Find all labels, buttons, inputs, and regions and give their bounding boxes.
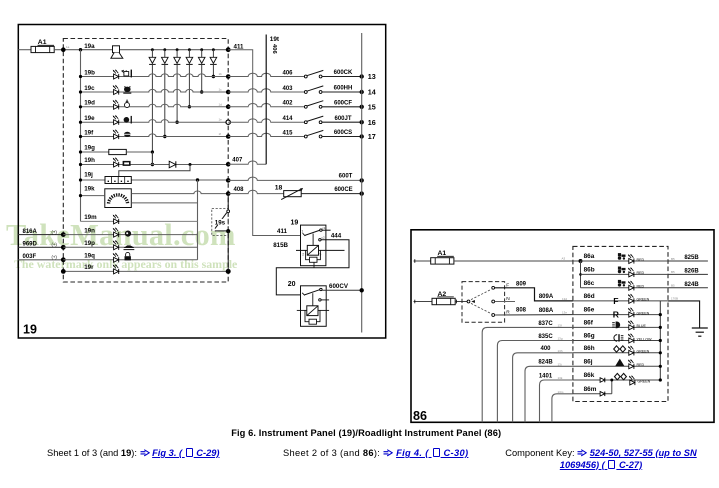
svg-text:808: 808 — [516, 308, 527, 314]
switch contact for 406 — [304, 75, 307, 78]
svg-text:19q: 19q — [84, 253, 95, 260]
svg-text:600JT: 600JT — [334, 116, 351, 122]
external wire 003F — [18, 259, 63, 261]
svg-text:RED: RED — [637, 258, 645, 262]
node 19c exits dashed box — [226, 90, 231, 95]
fan wire 835C — [497, 341, 573, 423]
selector contact N — [492, 300, 495, 303]
junction D4 to row — [188, 105, 191, 108]
watermark — [6, 218, 236, 253]
node 19n on dashed edge — [61, 232, 66, 237]
selector contact R — [492, 314, 495, 317]
node 19q on dashed edge — [61, 257, 66, 262]
svg-text:RED: RED — [637, 285, 645, 289]
wire 406 to switch — [228, 73, 305, 76]
svg-text:1b: 1b — [219, 72, 223, 76]
diode on 19h — [169, 161, 175, 167]
wire 815B stub to relay 19 coil — [296, 249, 307, 251]
svg-text:407: 407 — [232, 158, 243, 164]
indicator LED 19f — [113, 129, 119, 139]
fan wire 824B — [525, 366, 573, 422]
row wire 19m — [81, 220, 198, 222]
svg-text:400: 400 — [540, 346, 551, 352]
svg-text:19t: 19t — [270, 36, 280, 43]
relay 19 contact 2 — [319, 239, 321, 241]
svg-text:GREEN: GREEN — [637, 350, 650, 354]
node 19d exits dashed box — [226, 105, 231, 110]
svg-text:13d: 13d — [562, 297, 567, 301]
svg-text:1401: 1401 — [539, 373, 553, 379]
svg-text:(+): (+) — [52, 255, 58, 260]
relay 20 pin 1 / blade — [302, 293, 305, 296]
instrument panel dashed enclosure 19 — [63, 39, 228, 283]
row wire 19b — [81, 74, 229, 77]
terminal 17 — [360, 134, 364, 138]
junction 19a / left bus — [79, 48, 82, 51]
svg-text:444: 444 — [331, 233, 342, 240]
svg-text:16: 16 — [368, 118, 376, 127]
wire 407 — [228, 161, 266, 164]
row wire 19h — [81, 164, 229, 166]
svg-text:19f: 19f — [84, 129, 94, 136]
wire 403 to switch — [228, 89, 305, 92]
indicator LED 19n — [113, 227, 119, 237]
junction 19j / bus B — [196, 178, 199, 181]
gang unit 19j — [105, 177, 131, 184]
svg-text:86a: 86a — [584, 253, 595, 260]
switch contact for 403 — [304, 91, 307, 94]
node 407 exits dashed box — [226, 162, 231, 167]
svg-text:86f: 86f — [584, 319, 594, 326]
svg-text:815B: 815B — [273, 242, 288, 249]
svg-text:600CE: 600CE — [334, 187, 352, 193]
diode on 86m — [600, 392, 605, 397]
wire 408 — [228, 190, 284, 193]
fan wire 86m — [552, 394, 573, 423]
node: 19a enters dashed box — [61, 47, 66, 52]
wire 600T — [228, 177, 362, 180]
wire 402 to switch — [228, 103, 305, 106]
svg-text:86b: 86b — [584, 266, 595, 273]
svg-text:411: 411 — [277, 228, 288, 235]
indicator LED 19b — [113, 69, 119, 79]
bus B vertical — [197, 180, 199, 260]
gauge upper wire 408 — [131, 191, 228, 194]
wire 826B — [668, 273, 708, 275]
node 19f exits dashed box — [226, 134, 231, 139]
fan wire 837C — [482, 327, 573, 422]
gauge lower wire to bus B — [131, 202, 197, 204]
indicator LED 19c — [113, 85, 119, 95]
svg-text:86e: 86e — [584, 307, 595, 314]
svg-text:R: R — [613, 310, 620, 320]
icon tractor 86b — [618, 267, 626, 274]
svg-text:816A: 816A — [23, 229, 38, 235]
svg-text:86: 86 — [413, 409, 427, 423]
svg-text:YELLOW: YELLOW — [637, 337, 653, 341]
svg-text:170B: 170B — [671, 296, 678, 300]
svg-text:1a: 1a — [66, 45, 70, 49]
svg-text:808A: 808A — [539, 308, 554, 314]
svg-text:86g: 86g — [584, 333, 595, 340]
svg-text:2: 2 — [302, 252, 304, 256]
icon diamonds 86h — [614, 346, 626, 352]
svg-text:86m: 86m — [584, 386, 597, 393]
wire 600CK — [322, 76, 362, 78]
terminal 13 — [360, 74, 364, 78]
wire to ground — [668, 301, 700, 328]
alarm buzzer on 19a — [113, 46, 120, 53]
svg-text:600CK: 600CK — [334, 70, 353, 76]
wire A2 to selector — [455, 301, 467, 303]
svg-text:1: 1 — [302, 230, 304, 234]
svg-text:F: F — [613, 296, 618, 306]
panel 86 outer border — [411, 230, 714, 422]
wire 444 — [276, 240, 349, 295]
svg-text:826B: 826B — [684, 269, 699, 275]
switch contact for 415 — [304, 135, 307, 138]
svg-text:GREEN: GREEN — [638, 379, 651, 383]
svg-text:969D: 969D — [23, 242, 38, 248]
link sheet2 — [283, 448, 468, 458]
relay 20 coil left stub — [297, 309, 307, 311]
terminal 16 — [360, 120, 364, 124]
row wire 86c — [581, 287, 669, 289]
svg-text:17: 17 — [368, 132, 376, 141]
svg-text:414: 414 — [282, 116, 293, 122]
node 19r right on dashed edge — [226, 269, 231, 274]
svg-text:86k: 86k — [584, 372, 595, 379]
fan wire 1401 — [540, 380, 573, 422]
row wire 19f — [81, 134, 229, 137]
row wire 19r — [63, 270, 228, 272]
svg-text:19n: 19n — [84, 227, 95, 234]
wire 411 vertical — [228, 50, 300, 236]
svg-text:600HH: 600HH — [334, 86, 353, 92]
svg-text:13f: 13f — [558, 323, 562, 327]
svg-text:19g: 19g — [84, 145, 95, 152]
icon brake 19e — [124, 116, 132, 124]
svg-text:B5: B5 — [671, 284, 675, 288]
svg-text:825B: 825B — [684, 255, 699, 261]
fuse A2 — [432, 298, 455, 304]
gauge left pin wire — [81, 195, 105, 197]
roadlight dashed enclosure 86 — [573, 246, 668, 401]
icon tractor 86a — [618, 253, 626, 260]
diode D4 drop line — [188, 48, 191, 51]
edge bus 408 to 19s — [227, 194, 229, 210]
diode D3 drop line — [176, 48, 179, 51]
svg-text:406: 406 — [282, 70, 293, 76]
row wire 86k — [573, 379, 660, 381]
svg-text:13j: 13j — [558, 362, 562, 366]
node 600CV on bus — [360, 288, 364, 292]
row wire 86h — [573, 352, 660, 354]
icon coolant 19d — [125, 100, 130, 108]
row wire 86b — [581, 273, 669, 275]
svg-text:GREEN: GREEN — [637, 311, 650, 315]
svg-text:1e: 1e — [219, 118, 223, 122]
resistor 19g — [109, 149, 127, 154]
svg-text:20: 20 — [288, 281, 296, 288]
row wire 19g — [81, 151, 109, 153]
link sheet1 — [47, 448, 220, 458]
svg-text:402: 402 — [282, 101, 293, 107]
node 408 exits dashed box — [226, 191, 231, 196]
edge bus 19s to 19r — [227, 231, 229, 271]
relay 20 parallel resistor — [305, 310, 320, 321]
svg-text:RED: RED — [637, 363, 645, 367]
wire 600CE — [301, 193, 362, 195]
relay 19 coil right stub — [319, 249, 345, 251]
svg-text:19b: 19b — [84, 69, 95, 76]
row wire 86m — [573, 393, 612, 395]
wire 414 to switch — [228, 119, 305, 122]
svg-text:19d: 19d — [84, 100, 95, 107]
row wire 86f — [573, 326, 660, 328]
figure caption — [7, 428, 719, 438]
indicator LED 86b — [628, 267, 634, 277]
wire 600CF — [322, 106, 362, 108]
switch 19s — [227, 210, 230, 213]
node 19r left — [61, 269, 66, 274]
svg-text:(+): (+) — [52, 229, 58, 234]
indicator LED 19q — [113, 252, 119, 262]
svg-text:824B: 824B — [538, 360, 553, 366]
svg-text:1d: 1d — [219, 102, 223, 106]
link component key — [505, 448, 697, 471]
panel light switch 19s dashed boxlet — [212, 208, 228, 235]
icon warning triangle 86j — [615, 359, 624, 367]
row wire 19c — [81, 89, 229, 92]
svg-text:19s: 19s — [215, 219, 226, 226]
wire 808 — [495, 314, 573, 316]
svg-text:19p: 19p — [84, 240, 95, 247]
icon horn 19n — [125, 231, 131, 237]
svg-text:406: 406 — [271, 44, 277, 54]
svg-text:19j: 19j — [84, 171, 93, 178]
svg-text:B5: B5 — [671, 257, 675, 261]
selector common contact — [467, 300, 470, 303]
svg-text:RED: RED — [637, 271, 645, 275]
node 19p on dashed edge — [61, 245, 66, 250]
svg-text:86c: 86c — [584, 280, 595, 287]
wire 86a feed — [454, 260, 581, 262]
svg-text:19a: 19a — [84, 43, 95, 50]
junction D2 to row — [163, 135, 166, 138]
wire 19a from border to fuse A1 — [18, 49, 31, 51]
node 600T exits dashed box — [226, 178, 231, 183]
svg-text:A3: A3 — [562, 257, 566, 261]
selector switch dashed box — [462, 282, 505, 323]
wire 600CS — [322, 136, 362, 138]
wire 824B — [668, 287, 708, 289]
icon oil 19b — [122, 70, 132, 78]
svg-text:19k: 19k — [84, 186, 95, 193]
wire 600JT — [322, 121, 362, 123]
relay 20 contact 2 stub — [319, 299, 321, 301]
row wire 86g — [573, 340, 660, 342]
svg-text:809: 809 — [516, 282, 527, 288]
branch 19h to 19j box — [189, 163, 192, 166]
icon worklight 86g — [614, 334, 624, 341]
row wire 19j — [81, 179, 229, 181]
terminal 15 — [360, 105, 364, 109]
connector line 19t (wire 406) — [265, 35, 267, 165]
node below 19s — [226, 229, 230, 233]
row wire 86d — [573, 300, 668, 302]
svg-text:13: 13 — [368, 72, 376, 81]
diode on 86k — [600, 378, 605, 383]
junction 86a/b/c — [579, 259, 583, 263]
svg-text:B5: B5 — [671, 270, 675, 274]
relay 19 bottom stub — [313, 262, 315, 268]
terminal 14 — [360, 90, 364, 94]
relay 19 coil — [307, 245, 318, 255]
indicator LED 86d — [628, 294, 634, 304]
indicator LED 19m — [113, 214, 119, 224]
indicator LED 19e — [113, 115, 119, 125]
svg-text:824B: 824B — [684, 282, 699, 288]
svg-text:86j: 86j — [584, 358, 593, 365]
svg-text:18: 18 — [275, 184, 283, 191]
svg-text:13e: 13e — [562, 311, 567, 315]
wire 600CV — [322, 289, 362, 291]
bus 86a to 86c — [580, 261, 582, 288]
row wire 19d — [81, 104, 229, 107]
diode D1 drop line — [151, 48, 154, 51]
svg-text:13g: 13g — [558, 337, 563, 341]
relay 19 contact 1 stub — [322, 229, 330, 231]
svg-text:408: 408 — [233, 187, 244, 193]
terminal bus — [361, 33, 363, 333]
row wire 19e — [81, 120, 229, 123]
icon battery 19h — [123, 161, 131, 166]
svg-text:835C: 835C — [538, 334, 553, 340]
junction D5 to row — [200, 90, 203, 93]
svg-text:600CF: 600CF — [334, 100, 352, 106]
row wire 86a — [581, 260, 669, 262]
node 411 on dashed edge — [226, 47, 231, 52]
icon lowbeam 86f — [612, 322, 620, 329]
indicator LED 19r — [113, 264, 119, 274]
wire 809 — [495, 288, 573, 301]
svg-text:600CS: 600CS — [334, 130, 352, 136]
relay 19 pin 1 / blade — [303, 233, 306, 236]
indicator LED 86c — [628, 281, 634, 291]
svg-text:19e: 19e — [84, 115, 95, 122]
icon lock 19q — [125, 252, 131, 260]
relay 19 parallel resistor — [306, 250, 321, 259]
svg-text:19: 19 — [23, 323, 37, 337]
wire 19a fuse to node — [54, 49, 228, 51]
node 19b exits dashed box — [226, 74, 231, 79]
svg-text:86d: 86d — [584, 293, 595, 300]
icon diamonds 86k — [615, 373, 627, 379]
svg-text:415: 415 — [282, 130, 293, 136]
icon tractor 86c — [618, 280, 626, 287]
diode D6 drop line — [212, 48, 215, 51]
svg-text:600T: 600T — [339, 174, 353, 180]
diode D2 drop line — [163, 48, 166, 51]
fuse A1 — [31, 46, 54, 52]
svg-text:15: 15 — [368, 102, 376, 111]
wire to fuse A1 (86) — [414, 260, 431, 262]
row wire 86j — [573, 365, 660, 367]
relay 20 coil — [307, 306, 318, 316]
join 86m to 86k — [611, 380, 613, 394]
svg-text:c1: c1 — [322, 226, 326, 230]
indicator LED 86a — [628, 254, 634, 264]
ground — [692, 328, 708, 336]
junction D6 to row — [212, 75, 215, 78]
wire 600HH — [322, 91, 362, 93]
svg-text:GREEN: GREEN — [637, 298, 650, 302]
row wire 86e — [573, 314, 660, 316]
diode D5 drop line — [200, 48, 203, 51]
svg-text:1c: 1c — [219, 88, 223, 92]
fuse A1 (86) — [431, 258, 454, 264]
indicator LED 19d — [113, 100, 119, 110]
selector N stub — [495, 301, 515, 303]
row wire 19q — [63, 259, 197, 261]
external wire 969D — [18, 246, 63, 248]
svg-text:19r: 19r — [84, 264, 94, 271]
junction D1 to row — [151, 163, 154, 166]
svg-text:13h: 13h — [558, 349, 563, 353]
inner bus 86d-86k — [659, 301, 661, 380]
svg-text:403: 403 — [282, 86, 293, 92]
row wire 19p — [63, 246, 197, 248]
svg-text:13m: 13m — [558, 390, 564, 394]
indicator LED 19h — [113, 157, 119, 167]
left bus wire inside dashed box — [80, 50, 82, 222]
wire 825B — [668, 260, 708, 262]
svg-text:809A: 809A — [539, 294, 554, 300]
node 19e exits dashed box — [226, 120, 230, 124]
panel 19 outer border — [18, 25, 385, 339]
svg-text:BLUE: BLUE — [637, 324, 647, 328]
external wire 816A — [18, 234, 63, 236]
row wire 19n — [63, 234, 197, 236]
switch contact for 414 — [304, 121, 307, 124]
wire to fuse A2 — [414, 301, 433, 303]
fan wire 400 — [513, 353, 573, 423]
selector dashed links — [471, 289, 492, 299]
svg-text:14: 14 — [368, 88, 376, 97]
svg-text:13k: 13k — [558, 376, 563, 380]
svg-text:19h: 19h — [84, 157, 95, 164]
svg-text:19m: 19m — [84, 214, 97, 221]
icon washer 19c — [123, 86, 131, 94]
relay 20 coil right stub — [318, 309, 329, 311]
switch contact for 402 — [304, 105, 307, 108]
indicator LED 19p — [113, 240, 119, 250]
svg-text:003F: 003F — [23, 254, 37, 260]
svg-text:c2: c2 — [322, 236, 326, 240]
selector contact F — [492, 286, 495, 289]
icon beam 19f — [123, 132, 131, 137]
svg-text:86h: 86h — [584, 345, 595, 352]
svg-text:1f: 1f — [219, 132, 222, 136]
svg-text:837C: 837C — [538, 321, 553, 327]
svg-text:600CV: 600CV — [329, 283, 349, 290]
svg-text:(+): (+) — [52, 242, 58, 247]
svg-text:19c: 19c — [84, 85, 95, 92]
wire 415 to switch — [228, 133, 305, 136]
svg-text:N: N — [506, 296, 510, 302]
junction 19g / D1 line — [151, 150, 154, 153]
